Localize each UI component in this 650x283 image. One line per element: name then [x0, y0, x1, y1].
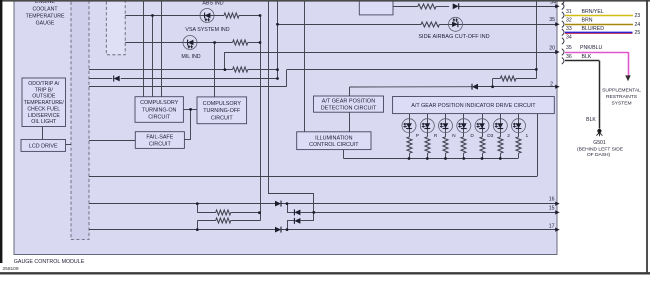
svg-text:SYSTEM: SYSTEM [611, 101, 631, 107]
wire PNK/BLU drop [628, 52, 630, 76]
wire VSA row right [239, 15, 260, 17]
wire LED R rail stub [427, 153, 429, 158]
svg-text:COOLANT: COOLANT [32, 6, 58, 12]
svg-text:TRIP B/: TRIP B/ [35, 87, 54, 93]
junction rowC / branch vertical [535, 68, 538, 71]
wire detection box top stub [349, 87, 351, 96]
junction pin17 row tap [196, 228, 199, 231]
svg-text:A/T GEAR POSITION: A/T GEAR POSITION [322, 99, 375, 105]
wire LED D3 feed [482, 114, 484, 137]
svg-text:33: 33 [566, 26, 572, 32]
LED gear position D [457, 119, 471, 133]
connector terminal pin cut at top [562, 0, 564, 5]
wire diode C out [300, 220, 313, 222]
diode pin 16 row [275, 201, 281, 207]
wire LED 1 feed [518, 114, 520, 137]
LED gear position 1 [512, 119, 526, 133]
wire LED D rail stub [463, 153, 465, 158]
wire rowC riser [286, 70, 288, 87]
wire VSA row left [125, 15, 224, 17]
wire MIL row right [248, 42, 260, 44]
LED gear position N [439, 119, 453, 133]
LED gear position D3 [475, 119, 489, 133]
wire res row2 right [231, 220, 260, 222]
svg-text:16: 16 [549, 197, 555, 203]
svg-text:LID/SERVICE: LID/SERVICE [28, 113, 61, 119]
LED MIL IND [183, 36, 197, 50]
wire BLU/RED wire base [565, 32, 633, 34]
junction pin16 row / diode B feed [286, 202, 289, 205]
page frame bottom [0, 272, 650, 274]
wire res row2 left [197, 220, 215, 222]
svg-text:ILLUMINATION: ILLUMINATION [315, 135, 352, 141]
svg-text:OUTSIDE: OUTSIDE [32, 94, 56, 100]
ground G501 [596, 129, 602, 136]
resistor lower pair upper [216, 210, 231, 215]
wire pin 2 row left [349, 86, 471, 88]
pin arrow pin 17 [555, 228, 560, 232]
wire diode B out [300, 212, 313, 214]
svg-text:PNK/BLU: PNK/BLU [580, 45, 602, 51]
wire LED N rail stub [445, 153, 447, 158]
svg-text:SUPPLEMENTAL: SUPPLEMENTAL [602, 88, 641, 94]
wire BRN/YEL wire [565, 15, 633, 17]
junction pin15 row / bus7 [312, 211, 315, 214]
svg-text:TURNING-OFF: TURNING-OFF [203, 108, 241, 114]
svg-text:GAUGE: GAUGE [36, 20, 55, 26]
wire diode C lead [287, 220, 294, 222]
pin arrow top row [555, 4, 560, 8]
svg-text:CIRCUIT: CIRCUIT [149, 141, 172, 147]
connector terminal pin 32 [562, 21, 564, 28]
LED gear position R [420, 119, 434, 133]
wire pin 16 row right [281, 203, 557, 205]
svg-text:A/T GEAR POSITION INDICATOR DR: A/T GEAR POSITION INDICATOR DRIVE CIRCUI… [411, 103, 536, 109]
arrow to supplemental restraints system [625, 75, 631, 81]
wire drive circuit return vertical [537, 114, 539, 177]
svg-text:COMPULSORY: COMPULSORY [203, 101, 242, 107]
page frame top [0, 0, 650, 2]
wire res row1 left [197, 212, 215, 214]
svg-text:24: 24 [635, 22, 641, 28]
resistor gear D3 [480, 137, 485, 153]
pin arrow pin 15 [555, 210, 560, 214]
svg-text:BLU/RED: BLU/RED [582, 26, 605, 32]
junction res pair / bus4 [258, 211, 261, 214]
pin arrow pin 16 [555, 202, 560, 206]
pin arrow pin 2 [555, 85, 560, 89]
wire pin 17 row left [89, 229, 275, 231]
wire display return wire [89, 176, 537, 178]
connector terminal pin 34 [562, 38, 564, 45]
wire vertical bus 3 [161, 1, 163, 97]
wire vertical bus 5 [268, 1, 270, 193]
svg-text:36: 36 [566, 54, 572, 60]
wire side airbag row right [439, 24, 557, 26]
wire vertical from row1 to rowC [536, 0, 538, 69]
diode row 1 [453, 3, 459, 9]
wire row 1 right [459, 6, 557, 8]
wire pin 20 row [225, 52, 557, 54]
gauge control module body [14, 0, 557, 255]
connector terminal pin 30 (cut) [562, 3, 564, 10]
wire LED N feed [445, 114, 447, 137]
svg-text:CHECK FUEL: CHECK FUEL [27, 106, 60, 112]
svg-text:CIRCUIT: CIRCUIT [148, 115, 171, 121]
wire row B right [121, 78, 278, 80]
svg-text:TEMPERATURE: TEMPERATURE [26, 13, 65, 19]
svg-text:BLK: BLK [586, 117, 596, 123]
resistor gear P [407, 137, 412, 153]
svg-text:35: 35 [566, 45, 572, 51]
wire LED P rail stub [409, 153, 411, 158]
svg-text:D: D [470, 133, 474, 139]
resistor lower pair lower [216, 218, 231, 223]
junction row A / pin20 tap [224, 68, 227, 71]
junction rail at 409 [408, 157, 411, 160]
wire diode B feed vertical [287, 204, 289, 213]
wire illumination to rail stub [343, 150, 345, 159]
wire LCD drive link [66, 144, 72, 146]
wire row A right [248, 69, 278, 71]
wire branch right lead [516, 78, 536, 80]
svg-text:TURNING-ON: TURNING-ON [142, 107, 177, 113]
diode pin 15 row [294, 209, 300, 215]
wire pin 15 row [314, 212, 557, 214]
junction airbag row / bus6 [276, 23, 279, 26]
wire pin20 tap vertical [224, 52, 226, 70]
wire LED D feed [463, 114, 465, 137]
connector terminal pin 36 [562, 58, 564, 65]
svg-text:SIDE AIRBAG CUT-OFF IND: SIDE AIRBAG CUT-OFF IND [418, 34, 489, 40]
svg-text:OF DASH): OF DASH) [587, 152, 611, 158]
svg-text:MIL IND: MIL IND [181, 54, 200, 60]
wire BLK ground drop [599, 61, 601, 129]
wire LED common rail [344, 158, 519, 160]
wire resistor branch drop [492, 79, 494, 87]
diode pin 17 row [275, 227, 281, 233]
LED SIDE AIRBAG CUT-OFF IND [449, 17, 463, 31]
wire row B left [89, 78, 112, 80]
wire pin 2 row right [478, 86, 557, 88]
wire pin17 tap lower [197, 221, 199, 230]
partial component box (cut at top) [359, 0, 393, 15]
wire diode B lead [287, 212, 294, 214]
wire fail-safe input [89, 140, 135, 142]
wire ODO to LCD stub [42, 127, 44, 140]
svg-text:BRN/YEL: BRN/YEL [582, 9, 604, 15]
svg-text:ODO/TRIP A/: ODO/TRIP A/ [28, 81, 60, 87]
junction rail at 427.3 [426, 157, 429, 160]
wire bus5 jog [268, 193, 314, 195]
resistor gear N [443, 137, 448, 153]
junction rail at 463.8 [462, 157, 465, 160]
svg-text:CIRCUIT: CIRCUIT [211, 115, 234, 121]
box A/T drive [393, 97, 555, 114]
svg-text:23: 23 [635, 13, 641, 19]
wire branch left lead [493, 78, 501, 80]
junction MIL row / off circuit [213, 41, 216, 44]
svg-text:31: 31 [566, 9, 572, 15]
wire vertical bus 7 [313, 194, 315, 221]
wire diode C feed vertical [287, 221, 289, 230]
svg-text:258109: 258109 [3, 266, 19, 272]
wire turning circuits link [183, 109, 197, 111]
wire row C [89, 86, 287, 88]
wire LED 1 rail stub [518, 153, 520, 158]
junction pin17 row / diode C feed [286, 228, 289, 231]
diode pin 2 row [472, 84, 478, 90]
diode row B [114, 76, 120, 82]
wire LED R feed [427, 114, 429, 137]
wire LED P feed [409, 114, 411, 137]
svg-text:R: R [434, 133, 438, 139]
wire fail-safe riser [190, 109, 192, 139]
junction pin16 row tap [196, 202, 199, 205]
wire res row1 right [231, 212, 260, 214]
svg-text:25: 25 [635, 30, 641, 36]
wire BLK wire [565, 60, 599, 62]
wire LED 2 feed [500, 114, 502, 137]
svg-text:2: 2 [550, 81, 553, 87]
svg-text:2: 2 [507, 133, 510, 139]
wire row A left [89, 69, 233, 71]
box compulsory turning-on [135, 97, 183, 123]
svg-text:CONTROL CIRCUIT: CONTROL CIRCUIT [309, 142, 359, 148]
svg-text:FAIL-SAFE: FAIL-SAFE [146, 135, 173, 141]
wire LED D3 rail stub [482, 153, 484, 158]
junction rail at 482 [481, 157, 484, 160]
resistor MIL row [233, 40, 248, 45]
wire resistor branch vertical [536, 69, 538, 78]
junction circuits link / fail-safe riser [189, 108, 192, 111]
svg-text:VSA SYSTEM IND: VSA SYSTEM IND [185, 27, 229, 33]
wire vertical to illumination circuit [304, 1, 306, 132]
wire pin 16 row left [89, 203, 275, 205]
svg-text:34: 34 [566, 34, 572, 40]
svg-text:(BEHIND LEFT SIDE: (BEHIND LEFT SIDE [577, 146, 624, 152]
wire side airbag row left [278, 24, 422, 26]
wire PNK/BLU wire [565, 52, 628, 54]
svg-text:1: 1 [525, 133, 528, 139]
wire LED 2 rail stub [500, 153, 502, 158]
svg-text:D3: D3 [487, 133, 493, 139]
connector terminal pin 35 [562, 49, 564, 56]
box ODO/TRIP [22, 78, 66, 127]
wire BRN wire [565, 24, 633, 26]
wire vertical bus 2 [152, 16, 154, 97]
svg-text:BRN: BRN [582, 17, 593, 23]
svg-text:RESTRAINTS: RESTRAINTS [606, 94, 638, 100]
box LCD DRIVE [21, 140, 66, 152]
svg-text:32: 32 [566, 17, 572, 23]
wire row 1 left [393, 6, 418, 8]
wire fail-safe to riser [184, 139, 190, 141]
svg-text:BLK: BLK [582, 54, 592, 60]
junction MIL row / bus4 [259, 41, 262, 44]
page frame left bar [0, 0, 2, 263]
svg-text:15: 15 [549, 205, 555, 211]
junction rail at 500.3 [499, 157, 502, 160]
LED gear position 2 [493, 119, 507, 133]
junction VSA row / bus2 [151, 14, 154, 17]
wire row C continuation [287, 69, 537, 71]
connector terminal pin 31 [562, 12, 564, 19]
LED gear position P [402, 119, 416, 133]
dashed display band [71, 0, 89, 240]
resistor VSA row [224, 13, 239, 18]
junction rail at 445.5 [444, 157, 447, 160]
svg-text:GAUGE CONTROL MODULE: GAUGE CONTROL MODULE [14, 259, 85, 265]
wire MIL row to turning-off circuit [214, 43, 216, 97]
wire detection to illumination stub [349, 112, 351, 132]
resistor gear 1 [516, 137, 521, 153]
svg-text:35: 35 [549, 17, 555, 23]
svg-text:TEMPERATURE/: TEMPERATURE/ [24, 100, 65, 106]
svg-text:G501: G501 [593, 140, 606, 146]
resistor side airbag row [421, 22, 439, 27]
wire row 1 mid [436, 6, 449, 8]
wire pin 17 row right [281, 229, 557, 231]
pin arrow pin 20 [555, 50, 560, 54]
junction VSA row / bus4 [259, 14, 262, 17]
svg-text:N: N [452, 133, 456, 139]
resistor gear D [461, 137, 466, 153]
wire BLU/RED stripe [565, 33, 633, 35]
svg-text:LCD DRIVE: LCD DRIVE [29, 143, 58, 149]
svg-text:OIL LIGHT: OIL LIGHT [31, 119, 57, 125]
box fail-safe [135, 132, 184, 149]
svg-text:20: 20 [549, 45, 555, 51]
svg-text:COMPULSORY: COMPULSORY [140, 100, 179, 106]
junction row B / bus6 [276, 77, 279, 80]
pin arrow side airbag row [555, 22, 560, 26]
svg-text:17: 17 [549, 223, 555, 229]
resistor gear 2 [498, 137, 503, 153]
wire vertical bus 4 [260, 16, 262, 221]
svg-text:DETECTION CIRCUIT: DETECTION CIRCUIT [321, 105, 377, 111]
LED VSA SYSTEM IND [200, 9, 214, 23]
resistor gear R [425, 137, 430, 153]
junction pin2 row / branch [491, 85, 494, 88]
wire vertical bus 6 [277, 1, 279, 78]
junction row A / bus6 [276, 68, 279, 71]
svg-text:P: P [416, 133, 419, 139]
page frame right [646, 0, 648, 274]
resistor row 1 [418, 4, 436, 9]
box illumination control [297, 132, 371, 150]
box compulsory turning-off [197, 97, 247, 124]
wire pin16 tap upper [197, 204, 199, 213]
wire MIL row left [125, 42, 232, 44]
wire vertical bus 1 [143, 1, 145, 97]
resistor pin2 branch [500, 76, 516, 81]
box A/T detection [314, 96, 384, 112]
connector terminal pin 33 [562, 29, 564, 36]
resistor row A [233, 67, 248, 72]
diode bus7 branch [294, 218, 300, 224]
dashed gauge region [106, 0, 125, 55]
